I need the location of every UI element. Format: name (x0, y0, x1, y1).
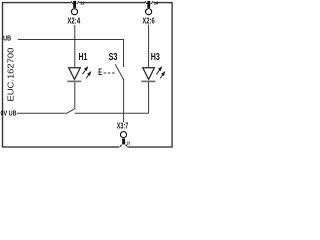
svg-text:E: E (98, 67, 102, 77)
svg-text:0V UB: 0V UB (1, 110, 17, 117)
svg-text:X2:4: X2:4 (67, 15, 80, 25)
svg-text:12: 12 (80, 1, 85, 6)
svg-text:H3: H3 (151, 52, 160, 63)
svg-text:14: 14 (154, 1, 159, 6)
svg-text:EUC.162700: EUC.162700 (6, 47, 16, 101)
svg-text:X3:7: X3:7 (117, 121, 129, 131)
svg-text:UB: UB (3, 33, 11, 42)
svg-text:S3: S3 (109, 52, 118, 63)
svg-text:23: 23 (127, 141, 131, 146)
svg-text:X2:6: X2:6 (142, 15, 154, 25)
svg-text:H1: H1 (79, 52, 88, 63)
